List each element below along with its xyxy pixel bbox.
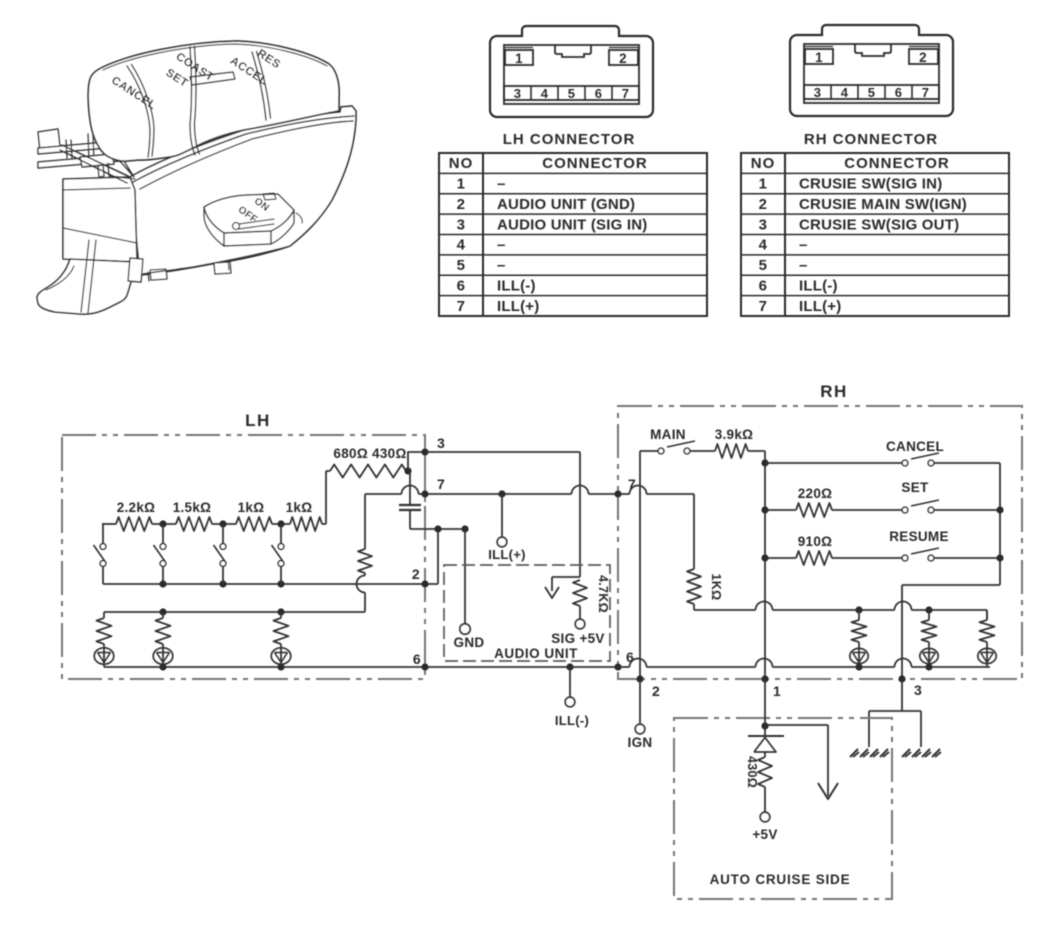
svg-text:SET: SET [901, 480, 929, 495]
svg-text:3: 3 [457, 216, 466, 233]
svg-text:220Ω: 220Ω [798, 486, 833, 501]
svg-text:1: 1 [773, 683, 781, 699]
svg-text:ILL(-): ILL(-) [555, 713, 589, 728]
svg-text:–: – [497, 237, 506, 254]
svg-text:5: 5 [868, 85, 876, 100]
svg-text:2.2kΩ: 2.2kΩ [117, 500, 156, 515]
svg-text:MAIN: MAIN [650, 427, 686, 442]
svg-text:1kΩ: 1kΩ [286, 500, 313, 515]
svg-text:–: – [799, 237, 808, 254]
svg-text:AUTO CRUISE SIDE: AUTO CRUISE SIDE [710, 872, 851, 887]
svg-text:LH CONNECTOR: LH CONNECTOR [503, 131, 636, 148]
svg-text:1: 1 [815, 50, 823, 65]
svg-text:4: 4 [541, 86, 549, 101]
svg-text:6: 6 [626, 649, 634, 665]
svg-text:2: 2 [652, 683, 660, 699]
svg-text:5: 5 [457, 257, 466, 274]
svg-text:6: 6 [413, 651, 421, 667]
svg-text:3.9kΩ: 3.9kΩ [715, 427, 754, 442]
svg-text:LH: LH [245, 411, 271, 430]
svg-text:3: 3 [814, 85, 822, 100]
svg-text:AUDIO UNIT (GND): AUDIO UNIT (GND) [497, 196, 635, 213]
svg-text:CANCEL: CANCEL [886, 439, 944, 454]
svg-text:4: 4 [759, 237, 768, 254]
svg-text:7: 7 [622, 86, 630, 101]
svg-text:CRUSIE SW(SIG IN): CRUSIE SW(SIG IN) [799, 176, 942, 193]
svg-text:CRUSIE MAIN SW(IGN): CRUSIE MAIN SW(IGN) [799, 196, 967, 213]
svg-text:ILL(+): ILL(+) [488, 547, 526, 562]
svg-text:1: 1 [457, 176, 466, 193]
svg-text:7: 7 [628, 476, 636, 492]
svg-text:IGN: IGN [628, 735, 653, 750]
svg-text:SIG +5V: SIG +5V [551, 631, 605, 646]
svg-text:RH CONNECTOR: RH CONNECTOR [804, 131, 938, 148]
svg-text:AUDIO UNIT: AUDIO UNIT [494, 646, 578, 661]
svg-text:910Ω: 910Ω [798, 534, 833, 549]
svg-text:1: 1 [759, 176, 768, 193]
svg-text:–: – [497, 257, 506, 274]
svg-text:CRUSIE SW(SIG OUT): CRUSIE SW(SIG OUT) [799, 216, 959, 233]
svg-text:AUDIO UNIT (SIG IN): AUDIO UNIT (SIG IN) [497, 216, 647, 233]
svg-text:RESUME: RESUME [889, 529, 949, 544]
svg-text:7: 7 [457, 298, 466, 315]
svg-text:6: 6 [895, 85, 903, 100]
svg-text:5: 5 [759, 257, 768, 274]
svg-text:1kΩ: 1kΩ [238, 500, 265, 515]
svg-text:1.5kΩ: 1.5kΩ [173, 500, 212, 515]
svg-text:ILL(+): ILL(+) [799, 298, 841, 315]
svg-text:430Ω: 430Ω [745, 756, 759, 788]
svg-text:NO: NO [751, 155, 776, 172]
svg-text:5: 5 [568, 86, 576, 101]
svg-text:2: 2 [457, 196, 466, 213]
svg-text:ILL(-): ILL(-) [799, 277, 838, 294]
svg-text:1: 1 [515, 51, 523, 66]
svg-text:7: 7 [437, 476, 445, 492]
svg-text:+5V: +5V [752, 827, 777, 842]
svg-text:CONNECTOR: CONNECTOR [542, 155, 647, 172]
svg-text:6: 6 [457, 277, 466, 294]
svg-text:4: 4 [841, 85, 849, 100]
svg-text:4.7KΩ: 4.7KΩ [596, 575, 610, 613]
svg-text:CONNECTOR: CONNECTOR [844, 155, 949, 172]
svg-text:2: 2 [759, 196, 768, 213]
svg-text:680Ω 430Ω: 680Ω 430Ω [333, 446, 406, 461]
svg-text:3: 3 [437, 435, 445, 451]
svg-text:2: 2 [412, 566, 420, 582]
svg-text:GND: GND [454, 635, 485, 650]
svg-text:ILL(-): ILL(-) [497, 277, 536, 294]
svg-text:2: 2 [919, 50, 927, 65]
svg-text:7: 7 [759, 298, 768, 315]
svg-text:1KΩ: 1KΩ [709, 574, 723, 601]
svg-text:3: 3 [759, 216, 768, 233]
svg-text:4: 4 [457, 237, 466, 254]
svg-text:6: 6 [759, 277, 768, 294]
svg-text:RH: RH [820, 382, 848, 401]
svg-text:2: 2 [619, 51, 627, 66]
svg-text:–: – [799, 257, 808, 274]
svg-text:–: – [497, 176, 506, 193]
svg-text:7: 7 [922, 85, 930, 100]
svg-text:NO: NO [449, 155, 474, 172]
svg-text:3: 3 [914, 682, 922, 698]
svg-text:3: 3 [514, 86, 522, 101]
svg-text:ILL(+): ILL(+) [497, 298, 539, 315]
svg-text:6: 6 [595, 86, 603, 101]
